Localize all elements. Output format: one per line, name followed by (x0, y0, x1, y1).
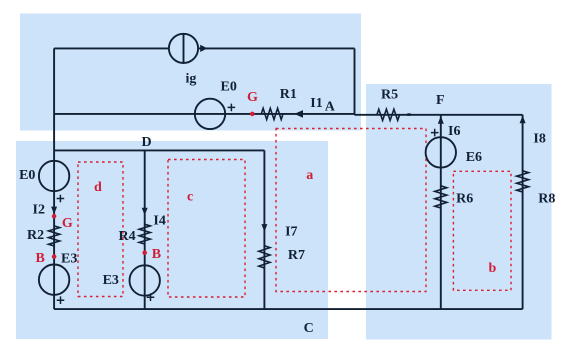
junction dot (406, 113, 411, 116)
svg-text:A: A (325, 100, 336, 115)
svg-text:I4: I4 (153, 213, 165, 228)
svg-text:E3: E3 (103, 273, 119, 288)
svg-text:ig: ig (186, 72, 197, 87)
svg-text:R7: R7 (288, 248, 305, 263)
svg-text:B: B (152, 247, 161, 262)
wire left vertical (53, 48, 55, 309)
highlight region bottom-left (16, 141, 328, 339)
wire right drop from top (354, 48, 356, 114)
loop b (dashed box) (453, 171, 511, 290)
wire bottom horizontal (54, 308, 522, 310)
wire branch R8 vertical (522, 115, 524, 309)
svg-text:R6: R6 (456, 191, 473, 206)
wire main horizontal right part (355, 114, 523, 116)
svg-text:B: B (36, 251, 45, 266)
svg-text:C: C (304, 321, 314, 336)
voltage source E6 (426, 137, 456, 167)
svg-text:I8: I8 (533, 132, 545, 147)
plus of E0 left (57, 195, 65, 203)
arrow I7 (down) (261, 224, 267, 232)
resistor R4 (139, 224, 150, 244)
svg-text:F: F (436, 93, 445, 108)
highlight region top-left (20, 14, 361, 131)
svg-text:R1: R1 (280, 87, 297, 102)
arrow I6 (up) (438, 116, 444, 124)
svg-text:E3: E3 (61, 252, 77, 267)
svg-text:E0: E0 (19, 168, 35, 183)
svg-text:E6: E6 (466, 150, 482, 165)
resistor R6 (435, 186, 447, 208)
arrow on top wire (ig direction) (200, 45, 207, 52)
node B dot mid (142, 250, 147, 255)
plus of E3 left (57, 296, 65, 304)
voltage source E3 left (39, 265, 69, 295)
loop c (dashed box) (168, 160, 245, 298)
arrow I4 (down) (142, 208, 148, 216)
resistor R2 (49, 226, 60, 246)
arrow I8 (up) (520, 116, 526, 124)
plus of E3 mid (147, 293, 155, 301)
resistor R8 (517, 171, 529, 192)
svg-text:R8: R8 (538, 192, 555, 207)
voltage source E0 left (39, 161, 69, 191)
loop d (dashed box) (78, 162, 123, 297)
wire D horizontal (54, 149, 264, 151)
svg-text:G: G (62, 216, 73, 231)
plus of E6 (431, 129, 439, 137)
node B dot left (52, 254, 57, 259)
svg-text:E0: E0 (221, 80, 237, 95)
node G dot top (250, 112, 255, 117)
arrow I1 (left) (294, 110, 303, 118)
svg-text:c: c (187, 189, 193, 204)
svg-text:R5: R5 (381, 88, 398, 103)
svg-text:I2: I2 (33, 202, 45, 217)
svg-text:R4: R4 (119, 229, 136, 244)
wire branch E6-R6 vertical (440, 115, 442, 309)
voltage source E3 mid (130, 265, 160, 295)
svg-text:I6: I6 (448, 124, 460, 139)
wire branch R4 vertical (144, 150, 146, 309)
svg-text:b: b (489, 261, 497, 276)
highlight region right (366, 84, 552, 340)
resistor R1 (261, 108, 283, 119)
resistor R5 (377, 109, 400, 120)
wire main horizontal left part (54, 113, 354, 115)
svg-text:G: G (247, 90, 258, 105)
node G dot left (52, 214, 57, 219)
svg-text:R2: R2 (27, 228, 44, 243)
svg-text:I7: I7 (285, 224, 297, 239)
loop a (dashed box) (276, 129, 426, 292)
svg-text:D: D (142, 135, 152, 150)
voltage source E0 top (195, 99, 225, 129)
svg-text:d: d (94, 180, 102, 195)
svg-text:a: a (306, 168, 313, 183)
current source ig (169, 34, 198, 63)
svg-text:I1: I1 (310, 96, 322, 111)
wire branch R7 vertical (263, 150, 265, 309)
wire top horizontal (54, 47, 354, 49)
arrow I2 (down) (51, 207, 57, 215)
plus of E0 top (228, 104, 236, 112)
resistor R7 (259, 246, 270, 268)
